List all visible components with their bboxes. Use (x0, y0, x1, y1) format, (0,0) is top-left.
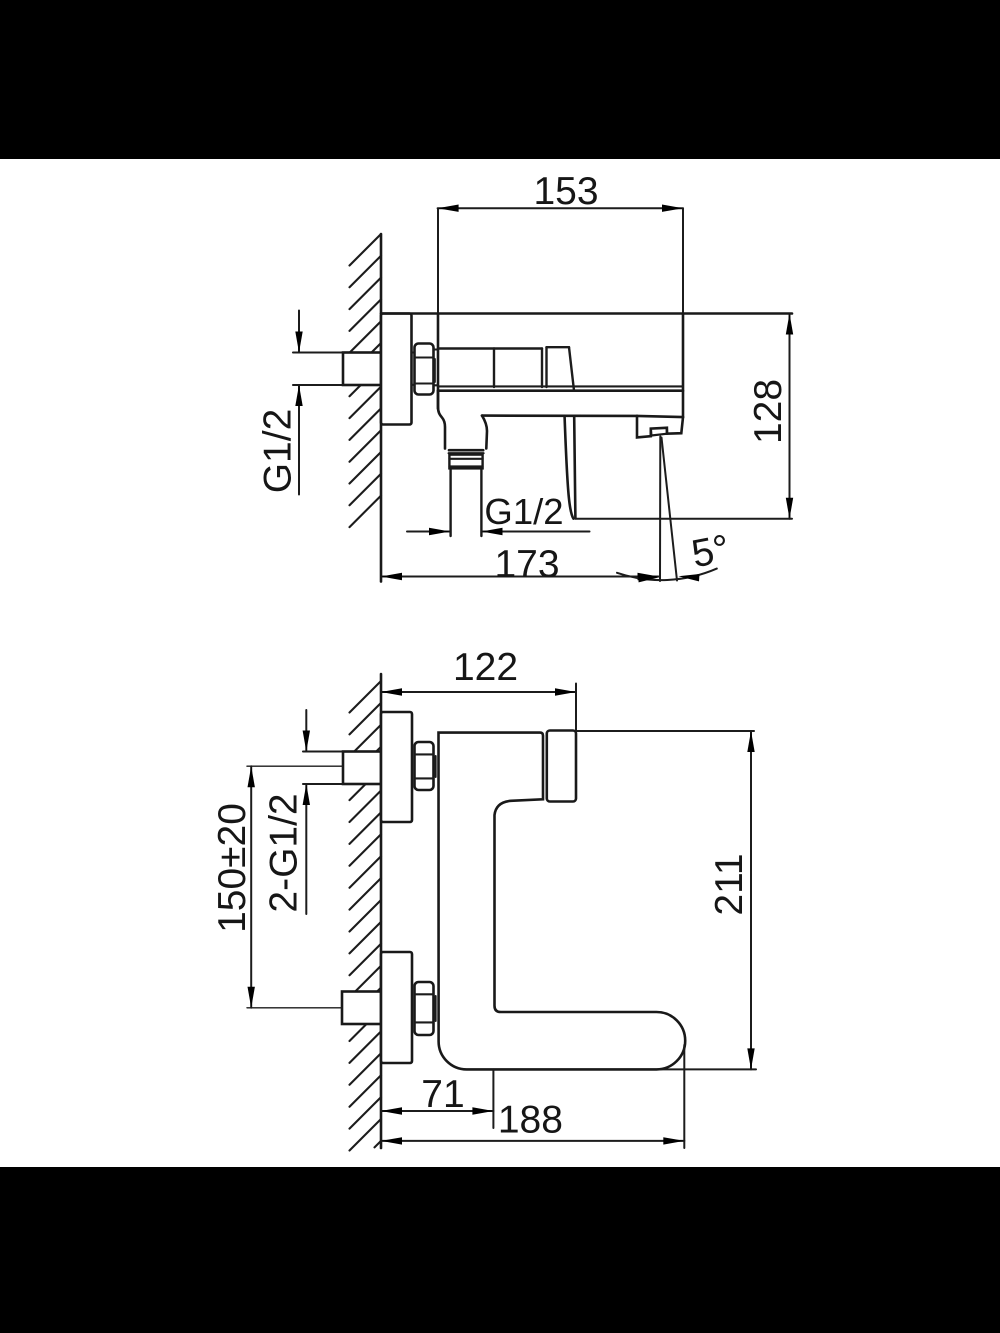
wall line (top drawing) (380, 234, 383, 582)
label 153 (533, 170, 598, 213)
label G1/2 middle (484, 491, 563, 532)
wall line (bottom drawing) (380, 674, 383, 1148)
svg-text:2-G1/2: 2-G1/2 (263, 793, 306, 912)
svg-text:173: 173 (494, 543, 559, 586)
body right edge + 153 extension (682, 208, 684, 417)
dimension G1/2 left (vertical, inlet pipe dia) (295, 311, 302, 495)
label 71 (421, 1073, 464, 1116)
dimension 173 (bottom of top drawing) (381, 573, 659, 580)
shower outlet connector rings (449, 450, 484, 468)
label 211 (rotated) (708, 853, 751, 915)
spout (curved blade) (565, 417, 576, 518)
faucet body top edge / 128 extension (top) (381, 312, 792, 315)
dimension 71 (bottom) (381, 1069, 493, 1128)
spout outlet box with aerator (637, 416, 683, 438)
label 5 deg (688, 527, 733, 576)
wall hatching (bottom drawing) (350, 681, 382, 1151)
neck to shower outlet (S-curves) (438, 391, 487, 449)
top letterbox bar (0, 0, 1000, 159)
inlet pipe stub through wall (top) (293, 353, 381, 386)
bottom hex nut (bottom drawing) (415, 982, 436, 1035)
label 150+-20 (rotated) (211, 803, 254, 933)
shower outlet pipe G1/2 (451, 468, 482, 536)
label 188 (498, 1099, 563, 1142)
wall escutcheon plate (top) (381, 314, 412, 425)
extension line from spout tip to 128 dim (576, 518, 793, 520)
deck bottom edge (482, 416, 683, 418)
dimension 211 (right, vertical) (576, 731, 756, 1069)
label 122 (453, 646, 518, 689)
svg-text:153: 153 (533, 170, 598, 213)
svg-text:188: 188 (498, 1099, 563, 1142)
label 128 (rotated) (747, 379, 790, 444)
svg-text:122: 122 (453, 646, 518, 689)
5 degree reference lines from aerator (660, 437, 677, 582)
mounting hex nut (top) (412, 344, 439, 395)
svg-text:150±20: 150±20 (211, 803, 254, 933)
wall hatching (top drawing) (350, 234, 382, 527)
dimension 188 (bottom) (381, 1045, 684, 1148)
cartridge housing sections inside body (438, 349, 542, 388)
bottom escutcheon plate (bottom drawing) (381, 952, 412, 1063)
bottom inlet pipe stub (bottom drawing) (247, 992, 381, 1025)
label G1/2 (rotated, left) (257, 409, 300, 494)
dimension 150 +/- 20 (left, vertical) (248, 766, 255, 1008)
top escutcheon plate (bottom drawing) (381, 712, 412, 822)
top inlet pipe stub (bottom drawing) (247, 752, 381, 785)
top hex nut (bottom drawing) (415, 742, 436, 790)
svg-text:G1/2: G1/2 (257, 409, 300, 494)
svg-text:G1/2: G1/2 (484, 491, 563, 532)
svg-text:71: 71 (421, 1073, 464, 1116)
svg-text:211: 211 (708, 853, 751, 915)
barrel bottom double line (438, 386, 683, 390)
dimension 122 (bottom drawing top) (381, 684, 576, 731)
dimension G1/2 middle (shower pipe dia) (407, 528, 590, 535)
label 2-G1/2 (rotated) (263, 793, 306, 912)
svg-text:5°: 5° (688, 527, 733, 576)
svg-text:128: 128 (747, 379, 790, 444)
handle lever (top drawing, tilted) (547, 347, 575, 390)
dimension 2-G1/2 (left, vertical, pipe dia) (303, 710, 310, 914)
5 degree angular arc with arrows (617, 569, 717, 583)
label 173 (494, 543, 559, 586)
body left edge + 153 extension (437, 208, 439, 408)
faucet body outline (front view: arm, trunk, handle) (439, 733, 686, 1070)
cartridge cap at end of arm (bottom drawing) (547, 731, 576, 802)
bottom letterbox bar (0, 1167, 1000, 1333)
dimension 128 (right, vertical) (786, 314, 793, 519)
dimension 153 (top) (438, 205, 683, 212)
